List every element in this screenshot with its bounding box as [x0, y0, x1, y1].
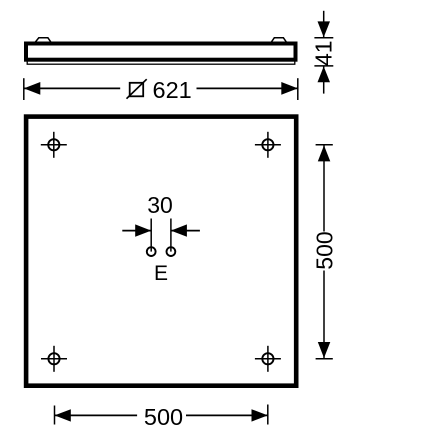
svg-text:30: 30 — [147, 192, 173, 218]
svg-text:E: E — [154, 262, 168, 285]
svg-text:500: 500 — [312, 231, 338, 269]
svg-text:41: 41 — [311, 40, 337, 66]
svg-text:500: 500 — [144, 404, 183, 430]
svg-text:621: 621 — [153, 77, 192, 103]
